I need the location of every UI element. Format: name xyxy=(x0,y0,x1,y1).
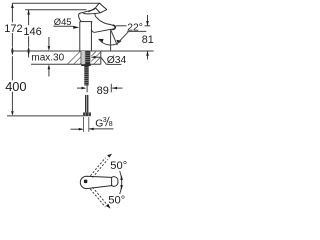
dimension 81 xyxy=(146,15,149,60)
shank collar nut xyxy=(81,64,91,66)
svg-text:3: 3 xyxy=(103,117,107,124)
handle slot xyxy=(84,180,87,184)
svg-text:146: 146 xyxy=(23,26,41,38)
swivel arc xyxy=(120,171,122,194)
left arrow line xyxy=(71,128,83,130)
Ø45 leader arrowhead xyxy=(73,26,79,29)
svg-text:89: 89 xyxy=(97,85,109,97)
extension lines xyxy=(83,117,85,132)
threaded rod below counter xyxy=(84,66,88,86)
max.30 bottom arrow xyxy=(48,69,50,77)
arc arrowhead left xyxy=(98,39,103,42)
right arrow line xyxy=(89,128,113,130)
body top line xyxy=(80,21,93,23)
svg-text:max.30: max.30 xyxy=(31,53,64,64)
svg-text:81: 81 xyxy=(142,34,154,46)
angle arc 22deg xyxy=(99,39,121,45)
svg-text:8: 8 xyxy=(109,121,113,128)
counter hatch xyxy=(68,51,102,64)
ray up arrowhead xyxy=(107,154,112,158)
lever top outline with upturned tip xyxy=(79,3,107,21)
leader to 22deg label xyxy=(118,32,128,43)
bottom view: handle top view xyxy=(80,176,118,188)
svg-text:50°: 50° xyxy=(110,160,127,172)
dimension 172 xyxy=(11,3,100,55)
ray down arrowhead xyxy=(106,204,111,209)
Ø45 leader underline xyxy=(53,26,77,27)
arc arrowhead right xyxy=(116,40,121,43)
threaded shank through counter xyxy=(81,51,90,64)
svg-text:400: 400 xyxy=(5,79,26,94)
Ø34 leader arrowhead xyxy=(91,56,96,59)
counter right edge xyxy=(100,51,102,64)
dimension 89 xyxy=(77,84,123,93)
flexible hose xyxy=(85,95,88,113)
hose end nut xyxy=(83,112,91,116)
arc arrow down xyxy=(120,185,123,190)
stream vertical ray xyxy=(110,30,112,52)
svg-text:172: 172 xyxy=(4,23,22,35)
Ø34 underline xyxy=(107,63,122,65)
lever paddle inner edge xyxy=(88,8,100,13)
arc arrow up xyxy=(120,175,123,180)
lever base line xyxy=(83,10,107,14)
Ø34 leader xyxy=(95,57,107,64)
dashed ray up (lever extreme position outline) xyxy=(93,160,108,178)
body left edge xyxy=(79,22,81,51)
400 bottom ref line xyxy=(7,115,83,117)
svg-text:22°: 22° xyxy=(127,22,143,33)
dimension 400 xyxy=(7,56,83,116)
spout nose dark xyxy=(112,25,115,29)
dimension 146 xyxy=(25,10,86,58)
handle capsule xyxy=(80,176,118,188)
22deg tick at 81 line xyxy=(145,25,151,27)
dimension G3/8 xyxy=(71,117,114,132)
svg-text:Ø45: Ø45 xyxy=(54,16,72,27)
body right edge xyxy=(90,22,92,51)
counter bottom line (shared with max.30 underline) xyxy=(31,63,101,65)
counter top line (shared with 81 bottom ref) xyxy=(12,50,154,52)
dashed ray down (lever extreme position outline) xyxy=(90,189,105,207)
22deg extension line xyxy=(116,25,127,27)
stream slant ray xyxy=(111,30,118,46)
22deg underline xyxy=(127,30,146,32)
notch and spout top xyxy=(95,14,114,26)
svg-text:50°: 50° xyxy=(108,195,125,207)
handle end cap line xyxy=(111,177,113,185)
spout underside xyxy=(91,29,112,32)
faucet U1 outline xyxy=(79,3,116,51)
max.30 top arrow xyxy=(48,37,50,47)
countertop section xyxy=(12,51,154,64)
